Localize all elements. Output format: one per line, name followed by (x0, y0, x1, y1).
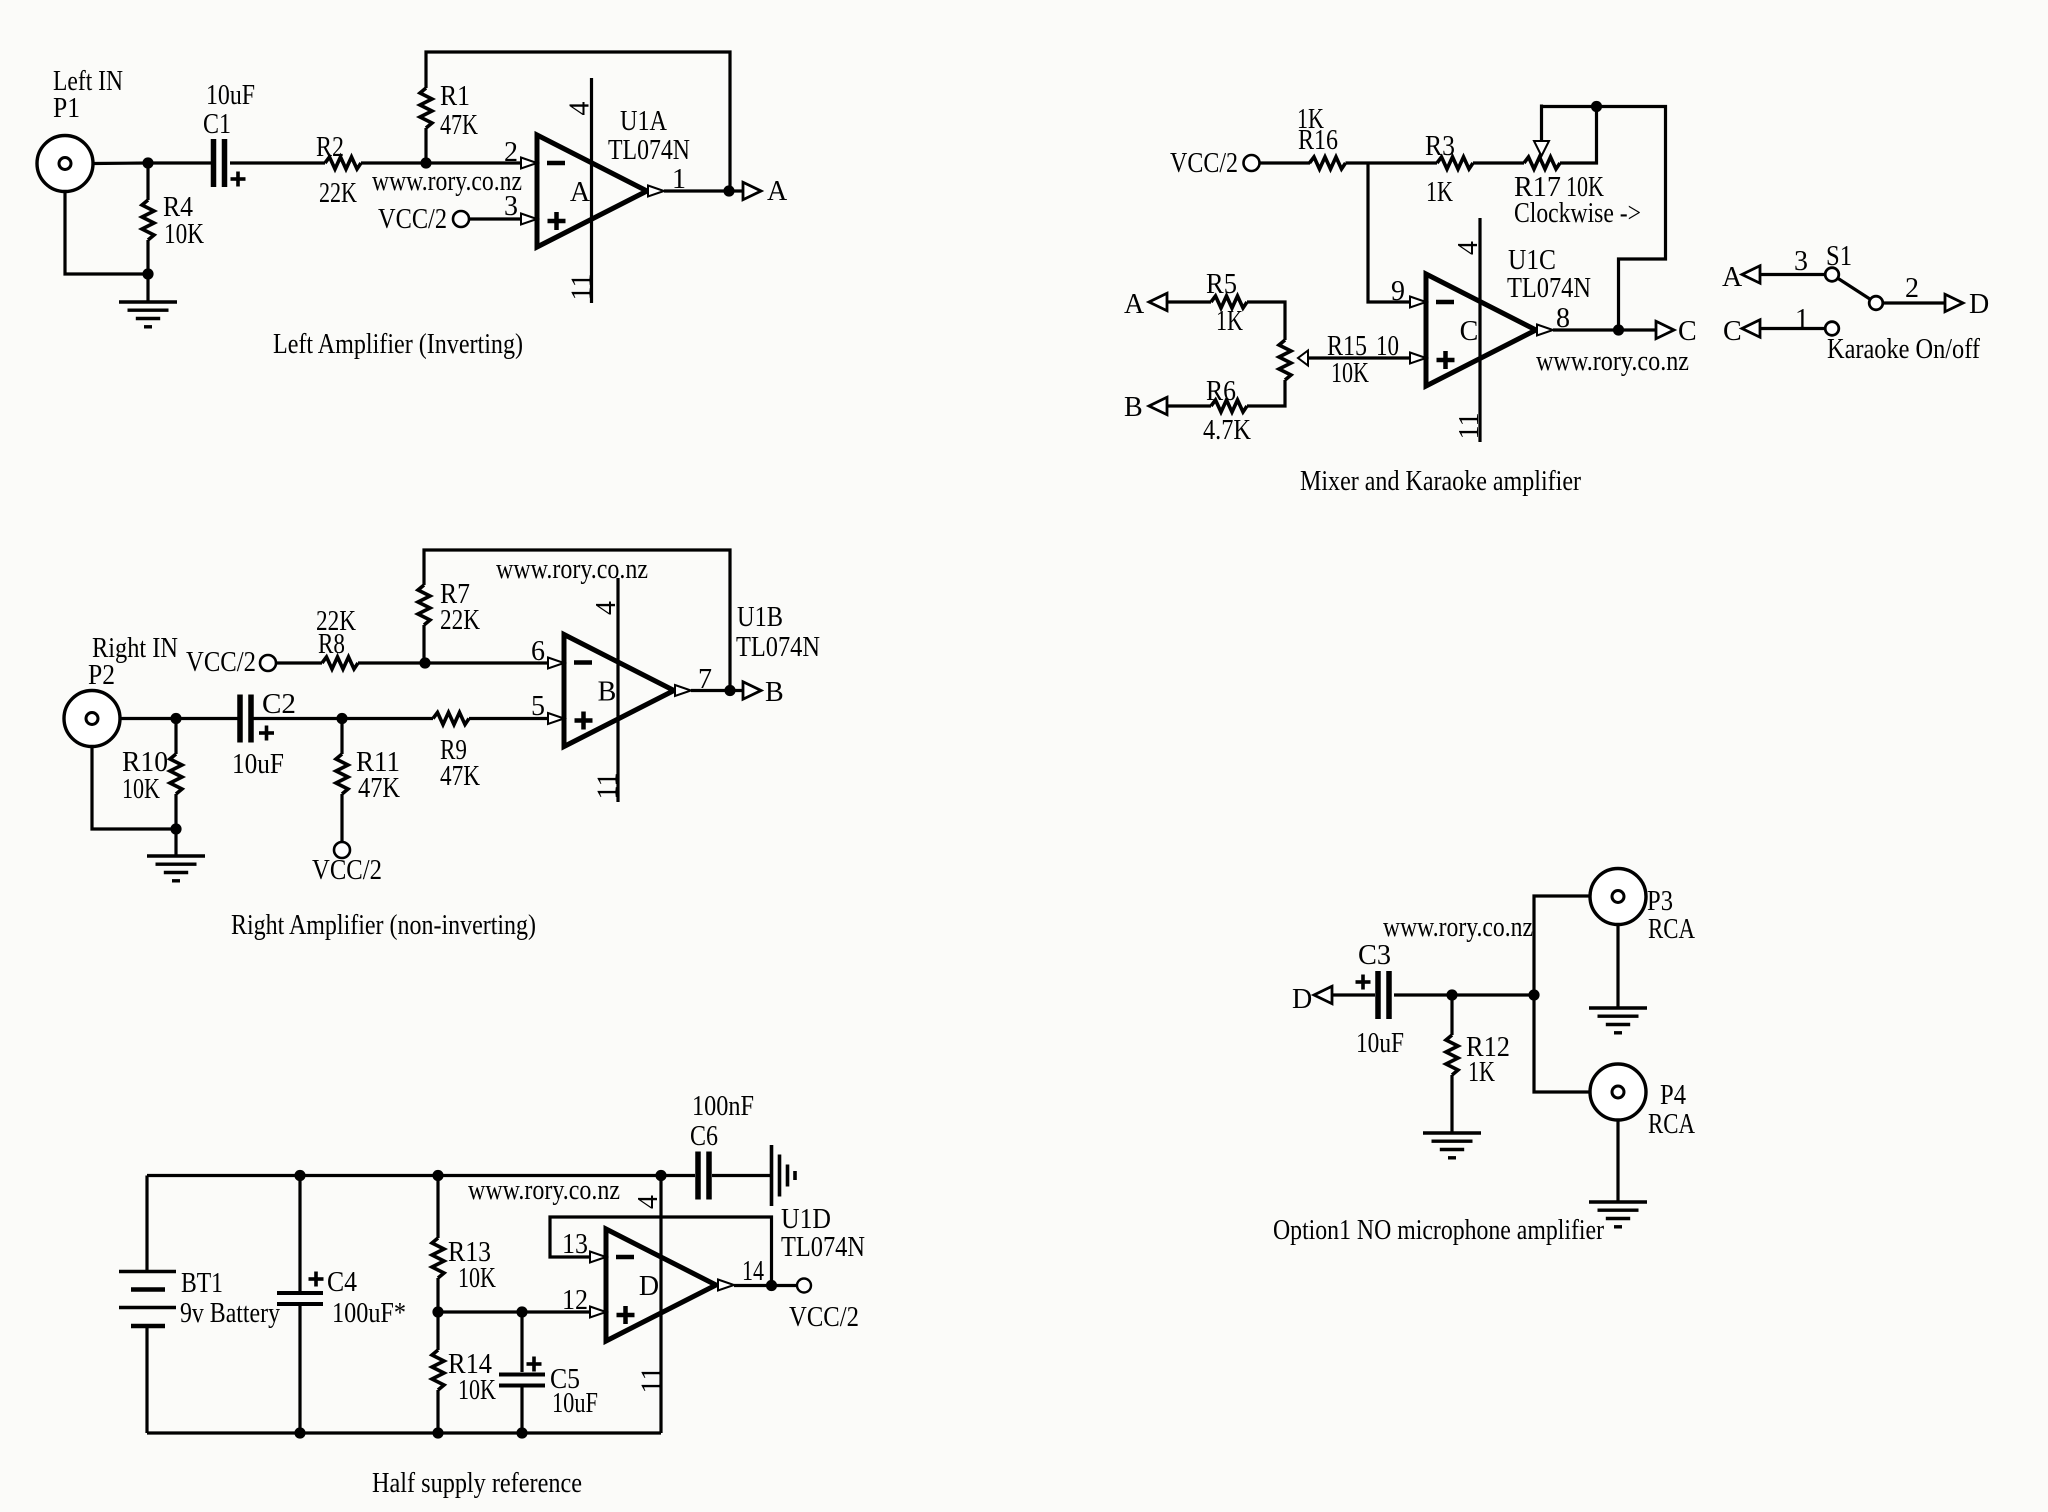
title Right Amplifier (231, 910, 536, 941)
svg-text:VCC/2: VCC/2 (789, 1302, 859, 1333)
svg-text:3: 3 (1794, 246, 1808, 277)
wire (340, 719, 343, 755)
connector arrow C (to switch) (1723, 316, 1760, 347)
label www.rory.co.nz (468, 1175, 620, 1206)
node (output/C6 feedback) (766, 1280, 777, 1291)
svg-text:www.rory.co.nz: www.rory.co.nz (1383, 912, 1533, 943)
capacitor C2 (232, 689, 296, 780)
svg-text:5: 5 (531, 691, 545, 722)
svg-text:TL074N: TL074N (1507, 273, 1591, 304)
ground (119, 302, 177, 327)
title Mixer and Karaoke amplifier (1300, 466, 1582, 497)
connector P3 (RCA jack) (1590, 869, 1696, 946)
svg-text:11: 11 (637, 1367, 668, 1394)
wire (92, 747, 176, 830)
connector arrow A (input) (1124, 289, 1167, 320)
svg-text:10K: 10K (458, 1263, 496, 1294)
wire (output B) (691, 689, 743, 692)
wire (pin 6) (425, 661, 548, 664)
svg-text:C: C (1678, 316, 1697, 347)
svg-text:C2: C2 (262, 689, 296, 720)
wire (output A) (664, 189, 743, 192)
svg-text:1K: 1K (1216, 306, 1243, 337)
svg-text:VCC/2: VCC/2 (312, 855, 382, 886)
svg-text:13: 13 (562, 1229, 588, 1260)
svg-text:2: 2 (1905, 273, 1919, 304)
resistor R3 (1425, 131, 1473, 208)
resistor R4 (142, 192, 204, 250)
wire (R17 wiper to top) (1542, 105, 1597, 108)
node (output B) (724, 685, 735, 696)
pin 5 arrow (531, 691, 564, 724)
node (C2/R11/R9 junction) (336, 713, 347, 724)
wire (1332, 993, 1375, 996)
wire (feedback) (424, 550, 730, 691)
op-amp U1B (564, 602, 820, 747)
wire (1346, 161, 1438, 164)
resistor R12 (1446, 1032, 1510, 1088)
svg-text:Option1 NO microphone amplifie: Option1 NO microphone amplifier (1273, 1215, 1605, 1246)
svg-text:10uF: 10uF (232, 749, 284, 780)
wire (pin 2) (426, 161, 521, 164)
svg-text:D: D (639, 1271, 659, 1302)
wire (146, 163, 149, 200)
ground (147, 856, 205, 881)
svg-text:TL074N: TL074N (781, 1232, 865, 1263)
pin 13 arrow (590, 1252, 606, 1263)
terminal VCC/2 (R16) (1170, 148, 1260, 179)
svg-text:R5: R5 (1206, 269, 1237, 300)
power rail pin 4/11 (U1C) (1453, 218, 1485, 442)
pin 8 output arrow (1537, 303, 1570, 336)
svg-text:R6: R6 (1206, 376, 1236, 407)
svg-text:2: 2 (504, 137, 518, 168)
svg-text:Right Amplifier (non-inverting: Right Amplifier (non-inverting) (231, 910, 536, 941)
pin 1 output arrow (648, 164, 686, 197)
node (C6 junction) (655, 1170, 666, 1181)
resistor R14 (432, 1349, 496, 1406)
svg-text:1: 1 (1795, 304, 1809, 335)
wire (1597, 107, 1666, 331)
svg-text:100uF*: 100uF* (332, 1298, 406, 1329)
wire (pin 9 branch) (1368, 163, 1409, 302)
svg-text:3: 3 (504, 191, 518, 222)
wire (1616, 1120, 1619, 1202)
wire (146, 240, 149, 274)
svg-text:47K: 47K (440, 110, 478, 141)
svg-text:14: 14 (742, 1256, 764, 1287)
node (R13/R14/pin12 junction) (432, 1306, 443, 1317)
wire (feedback) (426, 52, 730, 191)
wire (1247, 302, 1285, 340)
node (P1/R4/C1 junction) (142, 157, 153, 168)
node (432, 1170, 443, 1181)
node (R12 junction) (1446, 989, 1457, 1000)
wire (1167, 300, 1211, 303)
connector arrow D (from switch) (1945, 289, 1989, 320)
svg-text:Karaoke On/off: Karaoke On/off (1827, 334, 1981, 365)
svg-text:47K: 47K (440, 761, 480, 792)
title Left Amplifier (273, 329, 523, 360)
svg-text:VCC/2: VCC/2 (378, 204, 447, 235)
wire (1260, 161, 1311, 164)
terminal VCC/2 (R11) (312, 842, 382, 886)
wire (1560, 107, 1597, 164)
wire (146, 274, 149, 302)
wire (65, 192, 148, 275)
capacitor C3 (1356, 940, 1405, 1059)
svg-text:VCC/2: VCC/2 (1170, 148, 1238, 179)
wire (S1 pin 2) (1883, 273, 1945, 304)
node (P2 shield / R10 junction) (170, 823, 181, 834)
wire (422, 625, 425, 663)
wire (436, 1390, 439, 1433)
node (output A) (723, 185, 734, 196)
node (P3/P4 branch) (1528, 989, 1539, 1000)
svg-text:10K: 10K (458, 1375, 496, 1406)
svg-text:D: D (1292, 984, 1312, 1015)
svg-text:BT1: BT1 (181, 1268, 223, 1299)
svg-text:C: C (1460, 316, 1479, 347)
pin 12 arrow (562, 1285, 606, 1318)
wire (148, 161, 212, 164)
svg-text:Half supply reference: Half supply reference (372, 1468, 582, 1499)
svg-text:A: A (570, 177, 591, 208)
wire (1473, 161, 1524, 164)
svg-text:RCA: RCA (1648, 914, 1696, 945)
svg-text:www.rory.co.nz: www.rory.co.nz (496, 554, 648, 585)
svg-text:TL074N: TL074N (608, 135, 690, 166)
switch S1 pole (1869, 296, 1883, 310)
label Karaoke On/off (1827, 334, 1981, 365)
wire (output VCC/2) (734, 1284, 797, 1287)
label www.rory.co.nz (372, 166, 522, 197)
svg-text:A: A (1124, 289, 1145, 320)
pin 14 output arrow (718, 1256, 764, 1291)
wire (1450, 1075, 1453, 1133)
svg-text:R8: R8 (318, 629, 345, 660)
terminal VCC/2 (R8) (186, 647, 276, 678)
svg-text:10uF: 10uF (1356, 1028, 1404, 1059)
svg-text:P1: P1 (53, 93, 80, 124)
power rail pin 4/11 (U1A) (565, 78, 598, 303)
potentiometer R15 (1279, 331, 1399, 389)
capacitor C6 (690, 1091, 754, 1200)
terminal VCC/2 (output) (789, 1279, 859, 1334)
svg-text:100nF: 100nF (692, 1091, 754, 1122)
node (R8/R7/pin6 junction) (419, 657, 430, 668)
wire (436, 1312, 439, 1350)
svg-text:9: 9 (1391, 276, 1405, 307)
wire (pin 13 feedback) (550, 1217, 772, 1286)
wire (520, 1312, 523, 1372)
wire (230, 161, 325, 164)
svg-text:10K: 10K (122, 774, 160, 805)
wire (pin 5) (469, 717, 548, 720)
connector arrow D (input) (1292, 984, 1332, 1015)
title Half supply reference (372, 1468, 582, 1499)
svg-text:11: 11 (567, 274, 598, 301)
resistor R10 (122, 747, 182, 805)
wire (1616, 925, 1619, 1008)
resistor R1 (420, 81, 478, 141)
ground (R12) (1423, 1133, 1481, 1158)
op-amp U1C (1426, 245, 1591, 386)
wire (pin 10) (1308, 356, 1409, 359)
svg-text:11: 11 (1454, 413, 1485, 440)
wire (1167, 404, 1211, 407)
wire (298, 1176, 301, 1292)
svg-text:Mixer and Karaoke amplifier: Mixer and Karaoke amplifier (1300, 466, 1582, 497)
svg-text:www.rory.co.nz: www.rory.co.nz (1536, 346, 1689, 377)
capacitor C4 (277, 1267, 406, 1329)
wire (176, 717, 238, 720)
svg-text:4.7K: 4.7K (1203, 415, 1251, 446)
wire (520, 1388, 523, 1434)
svg-text:C1: C1 (203, 109, 231, 140)
label www.rory.co.nz (496, 554, 648, 585)
node (R17 wiper/terminal) (1591, 101, 1602, 112)
node (output C) (1613, 324, 1624, 335)
wire (361, 161, 426, 164)
wire (424, 128, 427, 163)
node (432, 1427, 443, 1438)
svg-text:R16: R16 (1298, 125, 1338, 156)
pin 10 arrow (1410, 353, 1426, 364)
svg-text:10uF: 10uF (552, 1388, 598, 1419)
connector P1 (RCA jack, Left IN) (37, 66, 123, 192)
wire (V+ rail) (147, 1174, 661, 1177)
title Option1 NO microphone amplifier (1273, 1215, 1605, 1246)
svg-text:Clockwise ->: Clockwise -> (1514, 198, 1641, 229)
svg-text:22K: 22K (319, 178, 357, 209)
resistor R16 (1297, 104, 1346, 169)
svg-text:VCC/2: VCC/2 (186, 647, 256, 678)
svg-text:B: B (598, 677, 617, 708)
ground (P4) (1589, 1202, 1647, 1227)
op-amp U1A (537, 106, 690, 247)
wire (1534, 995, 1590, 1092)
svg-text:U1B: U1B (737, 602, 783, 633)
ground (sideways) (772, 1145, 796, 1206)
resistor R6 (1203, 376, 1251, 446)
label www.rory.co.nz (1383, 912, 1533, 943)
svg-text:www.rory.co.nz: www.rory.co.nz (372, 166, 522, 197)
wire (pin 12) (438, 1310, 590, 1313)
wire (661, 1174, 695, 1177)
svg-text:1K: 1K (1426, 177, 1453, 208)
wire (output C) (1553, 328, 1656, 331)
wire (pin 3) (469, 217, 521, 220)
power rail pin 4/11 (U1D) (633, 1176, 668, 1434)
wire (340, 794, 343, 842)
wire (0V rail) (147, 1431, 661, 1434)
connector arrow A (743, 176, 788, 207)
svg-text:U1C: U1C (1508, 245, 1556, 276)
svg-text:TL074N: TL074N (736, 632, 820, 663)
svg-text:A: A (1722, 262, 1743, 293)
wire (145, 1176, 148, 1272)
connector P4 (RCA jack) (1590, 1064, 1696, 1140)
svg-text:U1D: U1D (781, 1204, 831, 1235)
svg-text:9v Battery: 9v Battery (180, 1298, 280, 1329)
node (P2/R10/C2 junction) (170, 713, 181, 724)
svg-text:11: 11 (593, 773, 624, 800)
op-amp U1D (606, 1204, 865, 1341)
wire (1247, 380, 1285, 406)
wire (436, 1278, 439, 1312)
svg-text:C: C (1723, 316, 1742, 347)
wire (174, 794, 177, 829)
resistor R9 (433, 713, 480, 793)
pin 3 arrow (504, 191, 537, 225)
svg-text:A: A (767, 176, 788, 207)
terminal VCC/2 (378, 204, 469, 235)
svg-text:U1A: U1A (620, 106, 668, 137)
resistor R13 (432, 1237, 496, 1294)
wire (120, 717, 176, 720)
resistor R7 (418, 579, 480, 636)
connector arrow A (to switch) (1722, 262, 1760, 293)
svg-text:D: D (1969, 289, 1989, 320)
pin 9 arrow (1391, 276, 1426, 308)
wire (1394, 993, 1534, 996)
svg-text:12: 12 (562, 1285, 588, 1316)
wire (712, 1174, 770, 1177)
potentiometer R17 (1514, 105, 1641, 230)
svg-text:R3: R3 (1425, 131, 1455, 162)
svg-text:4: 4 (1453, 241, 1484, 255)
wire (298, 1306, 301, 1433)
resistor R5 (1206, 269, 1247, 337)
svg-text:B: B (1124, 392, 1143, 423)
connector arrow B (input) (1124, 392, 1167, 423)
svg-text:R2: R2 (316, 132, 344, 163)
connector arrow C (1656, 316, 1697, 347)
node (516, 1427, 527, 1438)
label www.rory.co.nz (1536, 346, 1689, 377)
svg-text:C6: C6 (690, 1121, 718, 1152)
node (C5 junction) (516, 1306, 527, 1317)
battery BT1 (119, 1268, 280, 1329)
resistor R2 (316, 132, 361, 209)
pin 6 arrow (531, 636, 564, 669)
ground (P3) (1589, 1008, 1647, 1033)
svg-text:10K: 10K (164, 219, 204, 250)
power rail pin 4/11 (U1B) (591, 578, 624, 802)
connector arrow B (743, 677, 784, 708)
pin 7 output arrow (675, 664, 712, 696)
svg-text:C4: C4 (327, 1267, 357, 1298)
switch S1 contact 3 (1825, 268, 1839, 282)
svg-text:22K: 22K (440, 605, 480, 636)
node (294, 1170, 305, 1181)
switch S1 contact 1 (1825, 322, 1839, 336)
svg-text:1K: 1K (1468, 1057, 1495, 1088)
connector P2 (RCA jack, Right IN) (64, 633, 178, 747)
svg-text:B: B (765, 677, 784, 708)
svg-text:P2: P2 (88, 660, 115, 691)
svg-text:10uF: 10uF (206, 80, 255, 111)
svg-text:P4: P4 (1660, 1080, 1686, 1111)
svg-text:4: 4 (633, 1195, 664, 1209)
wire (276, 661, 322, 664)
svg-text:4: 4 (591, 601, 622, 615)
wire (174, 719, 177, 755)
pin 2 arrow (504, 137, 537, 169)
node (294, 1427, 305, 1438)
wire (1534, 896, 1590, 995)
svg-text:47K: 47K (358, 773, 400, 804)
resistor R8 (316, 606, 358, 669)
svg-text:www.rory.co.nz: www.rory.co.nz (468, 1175, 620, 1206)
switch S1 lever (1832, 275, 1876, 304)
wire (S1 pin 1) (1760, 304, 1825, 335)
svg-text:RCA: RCA (1648, 1109, 1696, 1140)
wire (358, 661, 425, 664)
capacitor C5 (499, 1357, 598, 1420)
wire (93, 161, 148, 165)
svg-text:Left Amplifier (Inverting): Left Amplifier (Inverting) (273, 329, 523, 360)
svg-text:6: 6 (531, 636, 545, 667)
wire (S1 pin 3) (1760, 241, 1852, 277)
svg-text:4: 4 (565, 102, 596, 116)
wire (436, 1176, 439, 1239)
svg-text:10K: 10K (1331, 358, 1369, 389)
wire (1450, 995, 1453, 1035)
capacitor C1 (203, 80, 255, 187)
svg-text:P3: P3 (1647, 886, 1673, 917)
node (P1 shield / R4 junction) (142, 268, 153, 279)
node (R2/R1/pin2 junction) (420, 157, 431, 168)
svg-text:R1: R1 (440, 81, 470, 112)
resistor R11 (336, 747, 400, 804)
svg-text:C3: C3 (1358, 940, 1391, 971)
wire (145, 1326, 148, 1433)
wire (174, 829, 177, 856)
wire (253, 717, 433, 720)
